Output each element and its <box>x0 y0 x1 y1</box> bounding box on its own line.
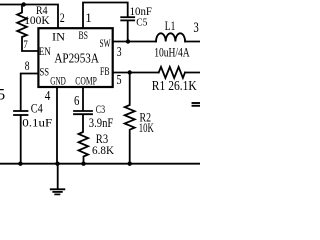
svg-text:C5: C5 <box>136 16 148 28</box>
svg-text:6: 6 <box>74 94 79 109</box>
svg-text:3: 3 <box>117 45 122 60</box>
svg-text:BS: BS <box>79 28 89 42</box>
svg-text:R1 26.1K: R1 26.1K <box>152 78 197 93</box>
svg-text:2: 2 <box>60 10 65 25</box>
svg-text:GND: GND <box>50 74 66 88</box>
svg-text:5: 5 <box>116 73 121 88</box>
svg-text:SW: SW <box>100 38 111 50</box>
svg-text:3: 3 <box>193 20 198 36</box>
svg-text:4: 4 <box>45 89 51 104</box>
svg-text:SS: SS <box>40 65 50 79</box>
svg-text:10uH/4A: 10uH/4A <box>154 46 190 60</box>
svg-text:IN: IN <box>52 30 65 44</box>
svg-text:0.1uF: 0.1uF <box>22 117 52 129</box>
svg-text:EN: EN <box>39 46 52 58</box>
svg-text:AP2953A: AP2953A <box>54 52 99 67</box>
svg-text:COMP: COMP <box>75 74 97 88</box>
svg-text:1: 1 <box>85 10 92 25</box>
svg-text:3.9nF: 3.9nF <box>89 116 114 130</box>
svg-text:C4: C4 <box>31 101 44 115</box>
svg-text:C3: C3 <box>96 104 105 116</box>
svg-text:8: 8 <box>25 58 30 73</box>
svg-text:10K: 10K <box>139 121 154 135</box>
svg-text:100K: 100K <box>24 13 50 27</box>
svg-text:FB: FB <box>100 64 110 78</box>
svg-text:L1: L1 <box>165 19 176 33</box>
svg-text:7: 7 <box>23 37 27 51</box>
svg-text:6.8K: 6.8K <box>92 143 114 157</box>
svg-text:5: 5 <box>0 87 5 104</box>
